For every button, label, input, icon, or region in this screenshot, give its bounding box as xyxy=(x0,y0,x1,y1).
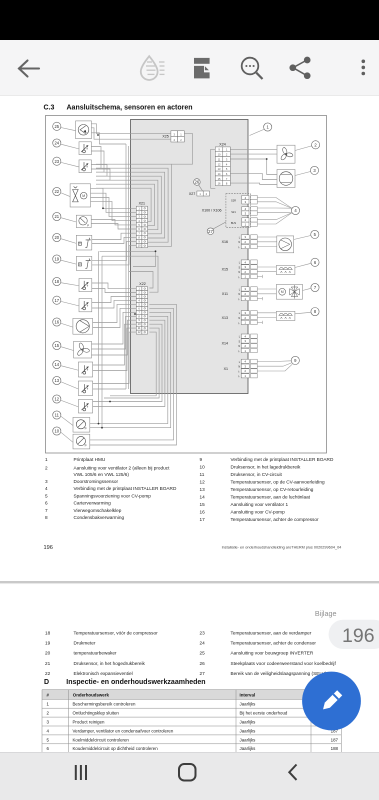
component 18 box xyxy=(79,279,92,292)
svg-text:N: N xyxy=(238,317,240,320)
wires left boxes to X21 direct xyxy=(91,188,137,265)
svg-text:1: 1 xyxy=(45,457,48,462)
connector X22 xyxy=(136,282,147,334)
svg-text:Aansluiting voor ventilator 1: Aansluiting voor ventilator 1 xyxy=(231,502,289,507)
component 16 callout circle xyxy=(53,318,61,326)
svg-text:Ontluchtingsklep sluiten: Ontluchtingsklep sluiten xyxy=(73,711,120,716)
svg-text:M: M xyxy=(82,194,85,198)
svg-text:196: 196 xyxy=(342,625,375,647)
svg-text:Condensbakverwarming: Condensbakverwarming xyxy=(74,515,125,520)
svg-text:X100 / X106: X100 / X106 xyxy=(202,209,222,213)
wires between X21 and X22 with risers to pressure gauges xyxy=(98,250,158,428)
callout circle 3 xyxy=(310,166,318,174)
svg-text:22: 22 xyxy=(45,671,51,676)
legend page 2 xyxy=(45,631,336,676)
svg-text:Koelmiddelcircuit controleren: Koelmiddelcircuit controleren xyxy=(73,737,130,742)
svg-text:X25: X25 xyxy=(162,134,168,138)
wires temp sensors 24/23 feeders xyxy=(91,147,110,181)
svg-text:26: 26 xyxy=(195,180,200,185)
leader line 3 xyxy=(295,172,311,176)
svg-text:7: 7 xyxy=(45,508,48,513)
svg-text:13: 13 xyxy=(200,487,206,492)
nav icon: back xyxy=(289,765,296,780)
svg-text:Jaarlijks: Jaarlijks xyxy=(240,728,257,733)
page 1 footer xyxy=(44,545,342,551)
junction dots xyxy=(97,134,136,402)
svg-text:Aansluiting voor CV-pomp: Aansluiting voor CV-pomp xyxy=(231,510,286,515)
component 17 box xyxy=(79,299,92,312)
wires X16 to pump xyxy=(257,237,276,247)
svg-text:27: 27 xyxy=(208,229,213,234)
component 17 callout circle xyxy=(53,296,61,304)
svg-text:X14: X14 xyxy=(222,342,228,346)
leader line 23 xyxy=(61,162,79,167)
callout circle 2 xyxy=(312,141,320,149)
svg-text:Temperatuursensor, op CV-retou: Temperatuursensor, op CV-retourleiding xyxy=(231,487,314,492)
connector X11 xyxy=(222,287,257,301)
svg-text:Beschermingsbereik controleren: Beschermingsbereik controleren xyxy=(73,702,137,707)
component 11 callout circle xyxy=(53,411,61,419)
svg-text:S2R: S2R xyxy=(231,199,236,203)
nav icon: home xyxy=(179,764,196,781)
leader line 14 xyxy=(61,366,79,371)
leader line 16 xyxy=(61,323,73,327)
svg-text:2: 2 xyxy=(45,465,48,470)
svg-text:11: 11 xyxy=(55,413,60,418)
wire X24 left loop xyxy=(211,149,216,188)
vertical feeder wires along board edge xyxy=(126,144,129,389)
svg-text:14: 14 xyxy=(54,362,59,367)
svg-text:18: 18 xyxy=(45,631,51,636)
svg-text:P: P xyxy=(87,224,89,228)
toolbar icon: back arrow xyxy=(19,61,39,77)
connector X21 xyxy=(136,202,147,248)
ventilator 2 box (item 2) xyxy=(277,145,295,163)
svg-text:17: 17 xyxy=(54,298,59,303)
component 24 callout circle xyxy=(53,139,61,147)
connector X24 xyxy=(215,143,230,186)
svg-text:X22: X22 xyxy=(139,282,145,286)
leader line 25 xyxy=(61,128,76,131)
svg-text:24: 24 xyxy=(54,141,59,146)
svg-text:25: 25 xyxy=(200,651,206,656)
svg-text:15: 15 xyxy=(54,343,59,348)
svg-text:Interval: Interval xyxy=(240,692,256,697)
wires X100/X106 to item 4 xyxy=(257,198,292,225)
svg-text:23: 23 xyxy=(200,631,206,636)
component 16 box xyxy=(73,318,93,334)
svg-text:Drukmeter: Drukmeter xyxy=(74,641,96,646)
svg-text:X13: X13 xyxy=(222,316,228,320)
svg-text:X11: X11 xyxy=(222,292,228,296)
leader line 10 xyxy=(61,432,73,442)
svg-text:15: 15 xyxy=(200,502,206,507)
svg-text:Installatie- en onderhoudshand: Installatie- en onderhoudshandleiding ar… xyxy=(222,546,342,550)
component 21 callout circle xyxy=(53,212,61,220)
wires X15 to heater 6 xyxy=(257,267,276,278)
svg-text:Bereik van de veiligheidslaags: Bereik van de veiligheidslaagspanning (S… xyxy=(231,671,327,676)
callout circle 26 (coding resistor slot) xyxy=(194,179,201,186)
component 21 box xyxy=(76,215,91,227)
svg-text:6: 6 xyxy=(45,501,48,506)
svg-text:17: 17 xyxy=(200,517,206,522)
component 10 box xyxy=(73,434,90,449)
component 20 box xyxy=(76,235,92,250)
svg-text:Product reinigen: Product reinigen xyxy=(73,720,106,725)
svg-text:C.3: C.3 xyxy=(44,105,55,112)
leader line 27 xyxy=(213,222,226,229)
component 19 box xyxy=(76,256,92,270)
pump box (item 3) xyxy=(277,170,295,188)
wires X1 to item 9 xyxy=(257,361,292,371)
leader line 8 xyxy=(295,312,311,314)
component 10 callout circle xyxy=(53,427,61,435)
toolbar icon: reflow droplet (disabled) xyxy=(141,56,165,80)
svg-text:Aansluiting voor bouwgroep INV: Aansluiting voor bouwgroep INVERTER xyxy=(231,651,314,656)
svg-text:temperatuurbewaker: temperatuurbewaker xyxy=(74,651,117,656)
svg-text:BUS: BUS xyxy=(231,221,237,225)
svg-text:VWL 105/6 en VWL 125/6): VWL 105/6 en VWL 125/6) xyxy=(74,472,130,477)
component 14 box xyxy=(78,362,92,377)
svg-text:Aansluitschema, sensoren en ac: Aansluitschema, sensoren en actoren xyxy=(67,105,193,112)
wires sensors to X25 xyxy=(91,124,192,164)
svg-text:188: 188 xyxy=(331,746,339,751)
svg-text:10: 10 xyxy=(54,429,59,434)
component 18 callout circle xyxy=(53,277,61,285)
svg-text:X1: X1 xyxy=(224,367,228,371)
leader line 26 to X27 xyxy=(199,185,203,191)
svg-text:P: P xyxy=(85,427,87,431)
toolbar icon: page view mode xyxy=(194,58,210,79)
svg-text:D: D xyxy=(44,679,49,686)
svg-text:Bijlage: Bijlage xyxy=(315,609,337,618)
page 2 background xyxy=(0,584,379,752)
component 12 box xyxy=(78,400,92,414)
svg-text:P: P xyxy=(85,443,87,447)
svg-text:X15: X15 xyxy=(222,268,228,272)
leader line 7 xyxy=(303,288,312,290)
svg-text:Inspectie- en onderhoudswerkza: Inspectie- en onderhoudswerkzaamheden xyxy=(66,679,205,686)
leader line 17 xyxy=(61,301,79,305)
page number pill xyxy=(329,620,379,649)
component 15 callout circle xyxy=(53,341,61,349)
svg-text:21: 21 xyxy=(45,661,51,666)
toolbar icon: search xyxy=(242,58,263,79)
svg-text:Verbinding met de printplaat I: Verbinding met de printplaat INSTALLER B… xyxy=(74,486,177,491)
svg-text:N: N xyxy=(238,271,240,274)
heater box condensbak (item 8) xyxy=(276,311,295,320)
leader line 1 xyxy=(250,129,265,135)
connector X13 xyxy=(222,311,258,325)
svg-text:M: M xyxy=(281,290,284,294)
callout circle 5 xyxy=(311,230,319,238)
callout circle 6 xyxy=(311,258,319,266)
svg-text:Temperatuursensor, achter de c: Temperatuursensor, achter de condensor xyxy=(231,641,317,646)
svg-text:Temperatuursensor, vóór de com: Temperatuursensor, vóór de compressor xyxy=(74,631,159,636)
svg-text:Koudemiddelcircuit op dichthei: Koudemiddelcircuit op dichtheid controle… xyxy=(73,746,159,751)
connector X27 xyxy=(189,191,210,196)
svg-text:Temperatuursensor, achter de c: Temperatuursensor, achter de compressor xyxy=(231,517,320,522)
wires X24 to ventilator 2 and pump xyxy=(230,149,277,184)
callout circle 27 (SELV area) xyxy=(207,228,214,235)
svg-text:Vierwegomschakelklep: Vierwegomschakelklep xyxy=(74,508,122,513)
svg-text:Druksensor, in CV-circuit: Druksensor, in CV-circuit xyxy=(231,472,283,477)
svg-text:187: 187 xyxy=(331,737,339,742)
navigation bar xyxy=(0,752,379,800)
svg-text:22: 22 xyxy=(54,189,59,194)
svg-text:16: 16 xyxy=(54,320,59,325)
svg-text:Printplaat HMU: Printplaat HMU xyxy=(74,457,106,462)
svg-text:19: 19 xyxy=(54,257,59,262)
svg-text:P: P xyxy=(79,262,81,266)
svg-text:X27: X27 xyxy=(189,192,195,196)
component 13 callout circle xyxy=(53,376,61,384)
leader line 5 xyxy=(294,236,311,240)
connector X100/X106 (INSTALLER BOARD link) xyxy=(202,194,257,228)
svg-text:Jaarlijks: Jaarlijks xyxy=(240,737,257,742)
wires X11 to valve xyxy=(257,289,276,300)
leader line 11 xyxy=(61,416,73,425)
connector X15 xyxy=(222,260,258,279)
maintenance table xyxy=(42,690,341,753)
svg-text:14: 14 xyxy=(200,495,206,500)
toolbar icon: overflow menu xyxy=(362,60,366,76)
schematic frame xyxy=(46,116,327,454)
svg-text:25: 25 xyxy=(54,124,59,129)
nav icon: recents xyxy=(75,765,87,780)
svg-text:16: 16 xyxy=(200,510,206,515)
component 23 callout circle xyxy=(53,157,61,165)
section heading D xyxy=(44,679,206,686)
callout circle 1 (printplaat HMU) xyxy=(264,123,272,131)
leader line 6 xyxy=(295,263,311,267)
svg-text:Temperatuursensor, op de CV-aa: Temperatuursensor, op de CV-aanvoerleidi… xyxy=(231,480,325,485)
svg-text:10: 10 xyxy=(200,465,206,470)
svg-text:196: 196 xyxy=(44,545,53,551)
svg-text:Elektronisch expansieventiel: Elektronisch expansieventiel xyxy=(74,671,133,676)
svg-text:Jaarlijks: Jaarlijks xyxy=(240,702,257,707)
connector X1 xyxy=(224,359,258,378)
leader line 13 xyxy=(61,382,79,389)
leader line 18 xyxy=(61,283,79,286)
connector X25 xyxy=(162,131,184,142)
leader line 22 xyxy=(61,193,70,197)
svg-text:12: 12 xyxy=(200,480,206,485)
svg-text:23: 23 xyxy=(54,159,59,164)
svg-text:Spanningsvoorziening voor CV-p: Spanningsvoorziening voor CV-pomp xyxy=(74,493,152,498)
svg-text:8: 8 xyxy=(45,515,48,520)
svg-text:Druksensor, in het lagedrukber: Druksensor, in het lagedrukbereik xyxy=(231,465,301,470)
connector X16 xyxy=(222,235,258,249)
svg-text:Temperatuursensor, aan de verd: Temperatuursensor, aan de verdamper xyxy=(231,631,312,636)
toolbar icon: share xyxy=(290,57,310,78)
page 1 background xyxy=(0,96,379,582)
svg-text:X21: X21 xyxy=(139,202,145,206)
status bar xyxy=(0,0,379,40)
section heading C.3 xyxy=(44,105,193,112)
svg-text:X24: X24 xyxy=(219,143,225,147)
callout circle 4 xyxy=(291,206,299,214)
component 19 callout circle xyxy=(53,255,61,263)
svg-text:13: 13 xyxy=(54,378,59,383)
svg-text:Onderhoudswerk: Onderhoudswerk xyxy=(73,692,110,697)
callout circle 8 xyxy=(311,308,319,316)
component 24 box xyxy=(79,142,91,155)
toolbar background xyxy=(0,40,379,96)
component 20 callout circle xyxy=(53,233,61,241)
svg-text:20: 20 xyxy=(54,235,59,240)
callout circle 9 xyxy=(291,356,299,364)
svg-text:26: 26 xyxy=(200,661,206,666)
wires around X21 (nest) xyxy=(96,164,172,246)
leader line 19 xyxy=(61,260,77,264)
svg-text:N: N xyxy=(238,366,240,369)
svg-text:Jaarlijks: Jaarlijks xyxy=(240,746,257,751)
floating action button (edit) xyxy=(302,672,361,731)
component 23 box xyxy=(79,160,91,173)
wires X22 nest wrap to lower sensors xyxy=(90,304,177,445)
component 13 box xyxy=(78,381,92,396)
component 25 box xyxy=(76,121,92,139)
svg-text:Jaarlijks: Jaarlijks xyxy=(240,720,257,725)
heater box carterverwarming (item 6) xyxy=(276,265,295,274)
svg-text:27: 27 xyxy=(200,671,206,676)
svg-text:Steekplaats voor codeerweersta: Steekplaats voor codeerweerstand voor ko… xyxy=(231,661,337,666)
wires left boxes to X22 xyxy=(92,283,137,389)
svg-text:11: 11 xyxy=(200,472,205,477)
page separator xyxy=(0,581,379,584)
svg-text:Verdamper, ventilator en conde: Verdamper, ventilator en condensafvoer c… xyxy=(73,728,174,733)
svg-text:N: N xyxy=(238,293,240,296)
svg-text:Bij het eerste onderhoud: Bij het eerste onderhoud xyxy=(240,711,288,716)
svg-text:Verbinding met de printplaat I: Verbinding met de printplaat INSTALLER B… xyxy=(231,457,334,462)
svg-text:3: 3 xyxy=(45,479,48,484)
svg-text:N: N xyxy=(238,241,240,244)
leader line 24 xyxy=(61,144,79,149)
callout circle 7 xyxy=(311,283,319,291)
leader line 20 xyxy=(61,239,77,244)
svg-text:Carterverwarming: Carterverwarming xyxy=(74,501,112,506)
legend page 1 xyxy=(45,457,334,522)
four-way valve box (item 7) xyxy=(276,284,302,299)
CV pump box (item 5) xyxy=(277,236,294,253)
leader line 2 xyxy=(295,146,312,151)
component 25 callout circle xyxy=(53,122,61,130)
svg-text:18: 18 xyxy=(54,279,59,284)
printplaat HMU board (item 1) xyxy=(131,120,249,394)
component 11 box xyxy=(73,417,90,432)
component 12 callout circle xyxy=(53,395,61,403)
component 22 callout circle xyxy=(53,187,61,195)
svg-text:P: P xyxy=(79,242,81,246)
svg-text:5: 5 xyxy=(45,493,48,498)
component 14 callout circle xyxy=(53,360,61,368)
svg-text:21: 21 xyxy=(54,214,59,219)
wires X13 to heater 8 xyxy=(257,313,276,324)
svg-text:19: 19 xyxy=(45,641,51,646)
svg-text:N: N xyxy=(238,345,240,348)
svg-text:20: 20 xyxy=(45,651,51,656)
svg-text:9: 9 xyxy=(200,457,203,462)
leader line 12 xyxy=(61,400,79,407)
svg-text:4: 4 xyxy=(45,486,48,491)
svg-text:Temperatuursensor, aan de luch: Temperatuursensor, aan de luchtinlaat xyxy=(231,495,311,500)
leader line 21 xyxy=(61,218,77,222)
svg-text:Aansluiting voor ventilator 2: Aansluiting voor ventilator 2 (alleen bi… xyxy=(74,465,171,470)
svg-text:24: 24 xyxy=(200,641,206,646)
svg-text:12: 12 xyxy=(54,397,59,402)
leader line 15 xyxy=(61,347,74,351)
component 22 box xyxy=(70,184,90,207)
component 15 box xyxy=(74,341,92,358)
svg-text:Doorstromingssensor: Doorstromingssensor xyxy=(74,479,119,484)
svg-text:X16: X16 xyxy=(222,240,228,244)
connector X14 xyxy=(222,334,258,353)
svg-text:Druksensor, in het hogedrukber: Druksensor, in het hogedrukbereik xyxy=(74,661,146,666)
svg-text:S21: S21 xyxy=(231,210,236,214)
